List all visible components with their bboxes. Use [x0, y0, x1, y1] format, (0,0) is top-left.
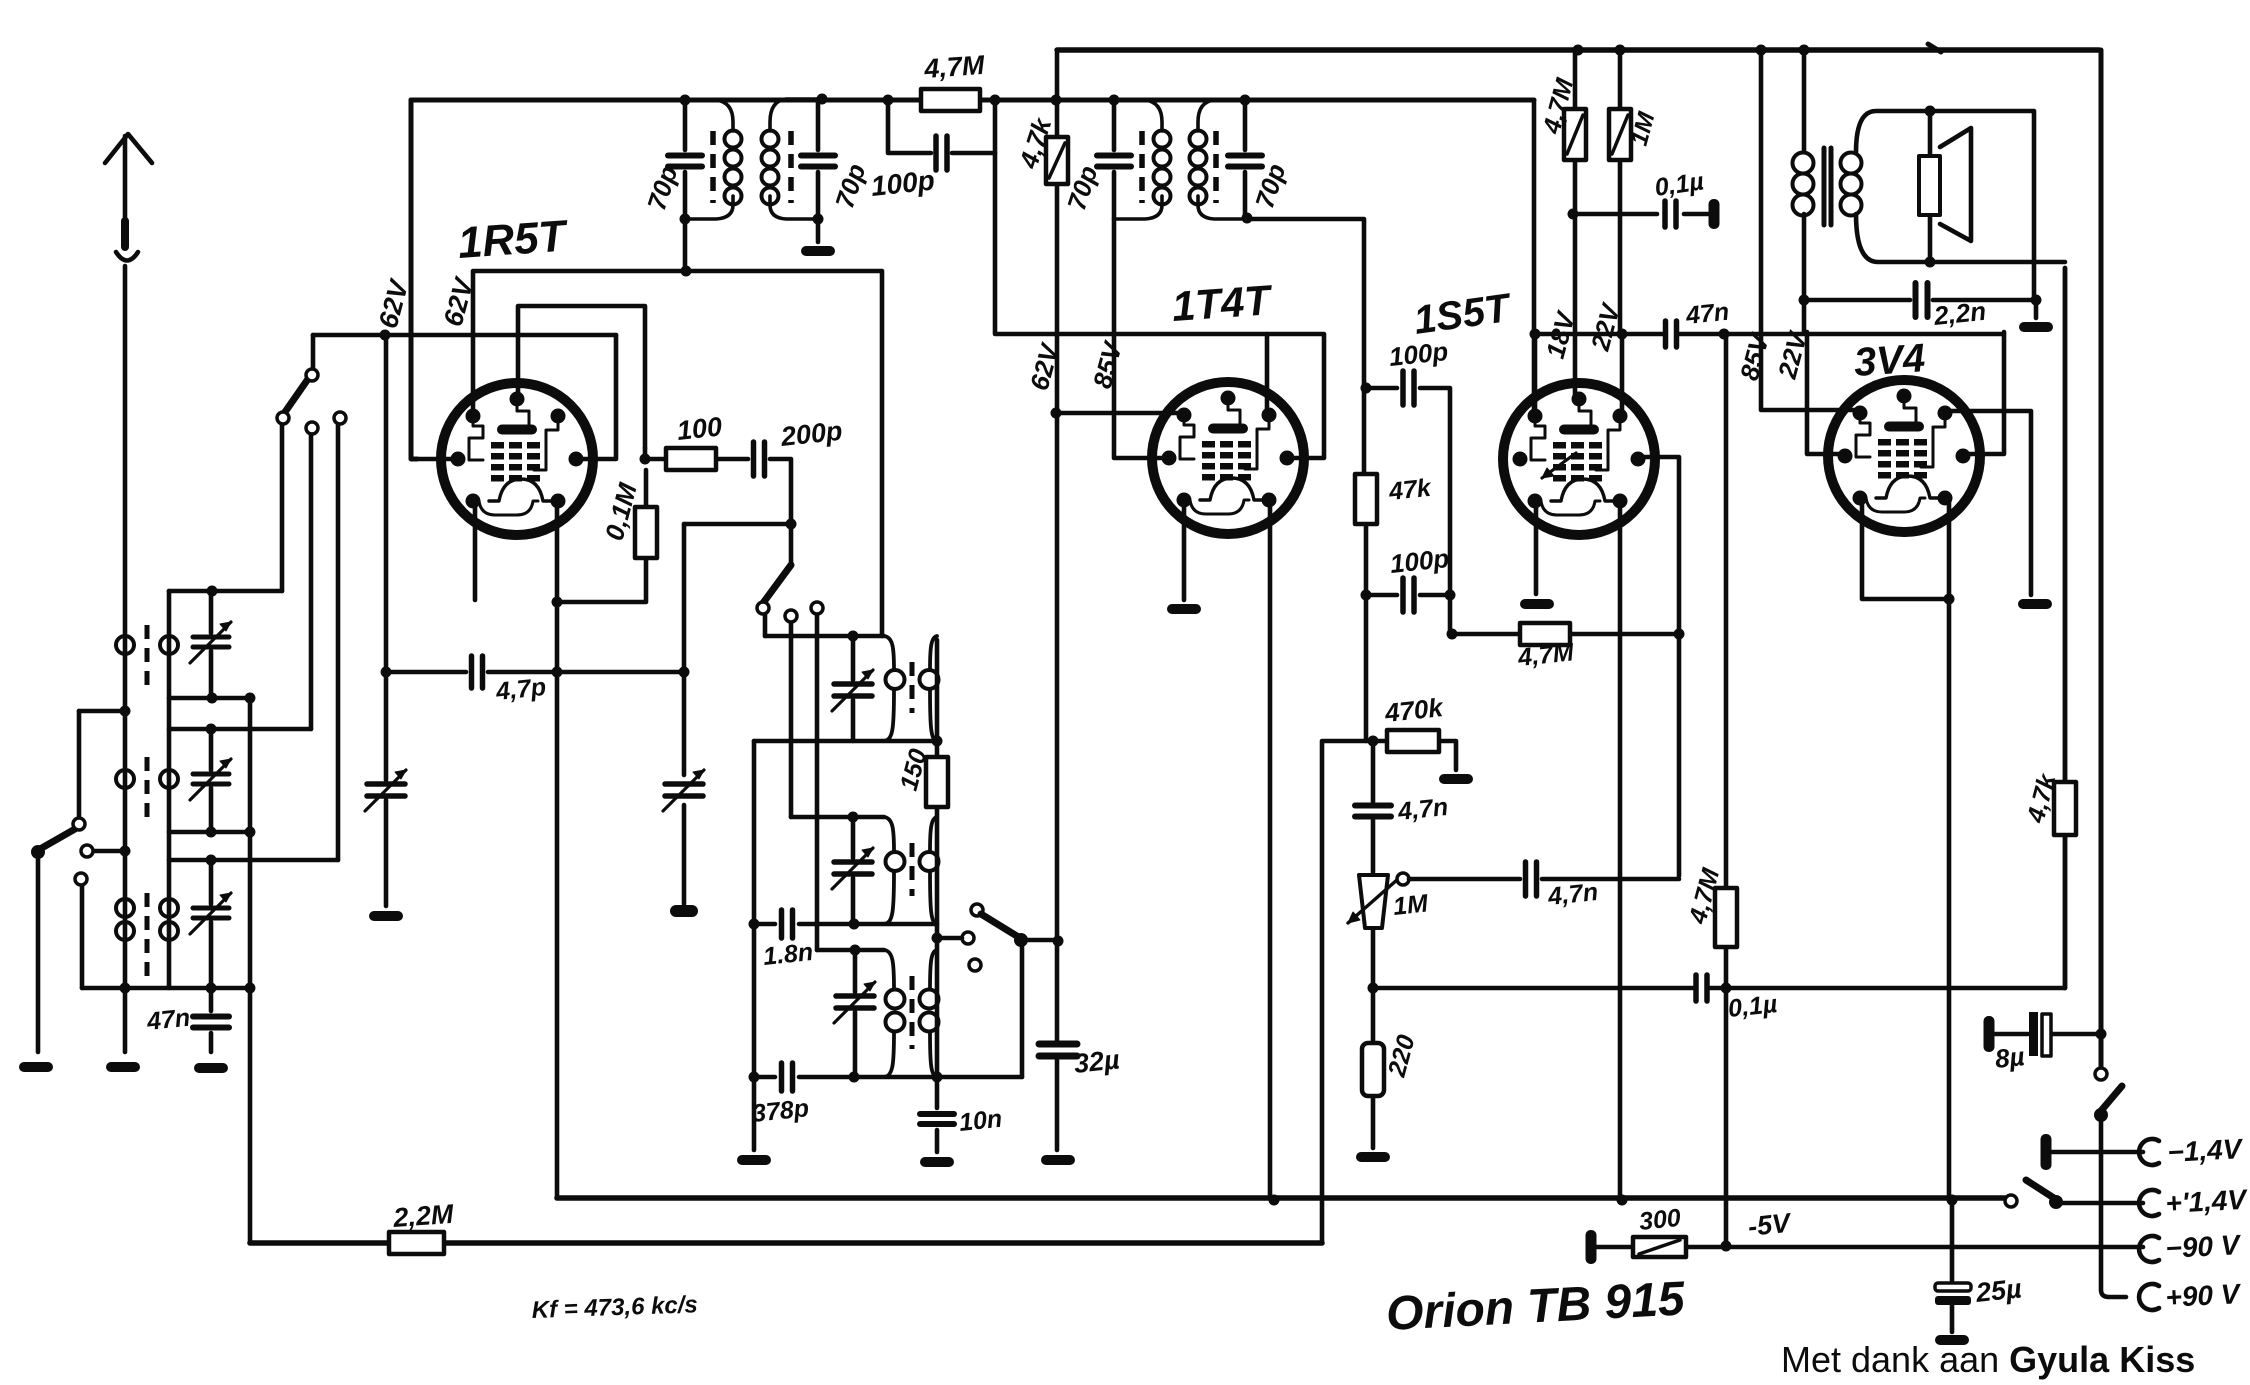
- svg-text:100p: 100p: [869, 164, 936, 202]
- svg-text:4,7M: 4,7M: [922, 50, 985, 84]
- svg-text:1M: 1M: [1392, 889, 1431, 921]
- svg-text:100p: 100p: [1387, 336, 1449, 372]
- svg-text:1.8n: 1.8n: [762, 938, 815, 971]
- svg-text:−1,4V: −1,4V: [2167, 1133, 2245, 1168]
- svg-text:0,1µ: 0,1µ: [1727, 990, 1779, 1023]
- svg-text:2,2n: 2,2n: [1931, 296, 1987, 331]
- svg-text:47k: 47k: [1387, 474, 1433, 506]
- svg-text:Met dank aan Gyula Kiss: Met dank aan Gyula Kiss: [1781, 1339, 2195, 1380]
- svg-text:4,7n: 4,7n: [1396, 793, 1450, 826]
- svg-text:-5V: -5V: [1746, 1208, 1793, 1242]
- svg-text:100p: 100p: [1388, 543, 1450, 579]
- svg-text:4,7p: 4,7p: [494, 673, 548, 706]
- svg-text:10n: 10n: [958, 1105, 1004, 1137]
- svg-text:378p: 378p: [751, 1094, 811, 1128]
- svg-text:300: 300: [1638, 1204, 1683, 1236]
- svg-text:8µ: 8µ: [1993, 1041, 2025, 1074]
- svg-text:25µ: 25µ: [1973, 1273, 2023, 1308]
- svg-text:47n: 47n: [1684, 298, 1731, 330]
- svg-text:32µ: 32µ: [1072, 1044, 1121, 1079]
- svg-text:470k: 470k: [1382, 692, 1445, 728]
- svg-text:2,2M: 2,2M: [391, 1199, 454, 1233]
- svg-text:+ʹ1,4V: +ʹ1,4V: [2165, 1184, 2249, 1219]
- svg-text:−90 V: −90 V: [2165, 1229, 2243, 1264]
- svg-text:100: 100: [675, 411, 723, 446]
- svg-text:1T4T: 1T4T: [1170, 276, 1274, 330]
- svg-text:1R5T: 1R5T: [456, 211, 570, 268]
- svg-text:+90 V: +90 V: [2165, 1278, 2243, 1313]
- svg-text:47n: 47n: [145, 1004, 192, 1036]
- svg-text:3V4: 3V4: [1853, 336, 1927, 385]
- svg-text:4,7n: 4,7n: [1546, 878, 1600, 911]
